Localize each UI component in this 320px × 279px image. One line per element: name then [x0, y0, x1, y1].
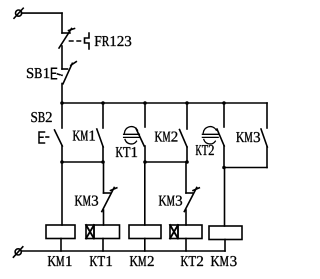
wire segment1 joining SB2 and KM1 bottoms: [62, 161, 103, 163]
node KM2/KM3NC junction: [185, 160, 189, 164]
node SB2/KM1 junction: [101, 160, 105, 164]
wire KM2 coil to bottom rail: [144, 239, 146, 252]
label coil KM2: [130, 256, 154, 266]
coil KM2: [129, 225, 161, 239]
contact KM2 (NO aux): [180, 103, 188, 162]
wire KM3 NC 1 to KT1 coil: [103, 210, 105, 225]
contact KM3 NC (interlock 2): [184, 188, 199, 212]
contact KM3 NC (interlock 1): [102, 188, 117, 212]
node KT2 branch top: [222, 101, 226, 105]
contact KT2 (on-delay timed NO): [202, 103, 224, 168]
node KM2 branch top: [185, 101, 189, 105]
node at bus left corner: [60, 101, 64, 105]
label coil KT1: [90, 256, 112, 266]
label SB2: [31, 112, 51, 122]
node KT2/KM3 junction: [222, 166, 226, 170]
wire KM2 node down to KM3 NC contact 2: [185, 162, 187, 193]
label coil KM3: [211, 256, 237, 266]
wire vertical drop to FR contact: [61, 13, 63, 33]
wire connector joining KT2 and KM3 bottoms: [224, 167, 267, 169]
wire SB1 to top bus: [61, 84, 63, 104]
wire segment2 joining KT1 and KM2 bottoms: [145, 161, 187, 163]
wire KT2 node down to KM3 coil: [224, 168, 226, 227]
label KM2 contact: [155, 132, 178, 142]
coil KM1: [46, 225, 75, 239]
label KT2 contact: [196, 145, 214, 155]
label coil KT2: [181, 256, 203, 266]
contact KM1 (self-hold NO aux): [97, 103, 103, 162]
wire KT1 coil to bottom rail: [102, 239, 104, 252]
node KT1/KM2 junction: [143, 160, 147, 164]
label KM3 contact right: [236, 132, 260, 142]
label coil KM1: [48, 256, 72, 266]
FR123 dashed link to thermal element: [70, 40, 84, 42]
label FR123: [95, 36, 132, 46]
start button SB2 NO contact: [39, 103, 62, 162]
wire top horizontal from terminal to drop: [22, 12, 63, 14]
FR123 thermal element symbol: [85, 33, 90, 49]
wire KM1 coil to bottom rail: [60, 239, 62, 252]
label KM1 contact: [73, 131, 95, 141]
node SB2 branch bottom: [60, 160, 64, 164]
label KT1 contact: [116, 147, 137, 157]
contact KT1 (on-delay timed NO): [124, 103, 145, 162]
label KM3 interlock 1: [75, 196, 98, 206]
node KM1 branch top: [101, 101, 105, 105]
wire KM1 node down to KM3 NC contact 1: [103, 162, 105, 193]
wire KM3 NC 2 to KT2 coil: [185, 210, 187, 225]
label KM3 interlock 2: [159, 196, 182, 206]
terminal L2 (bottom power terminal, circle with slash): [13, 247, 22, 257]
top bus (live rail after SB1): [62, 102, 267, 104]
coil KM3: [209, 226, 242, 240]
thermal relay FR123 NC contact: [59, 29, 75, 49]
wire KT2 coil to bottom rail: [185, 239, 187, 252]
wire KM3 coil to bottom rail: [224, 240, 226, 252]
wire FR to SB1: [61, 46, 63, 69]
coil KT2 (timer coil with X box): [170, 225, 202, 239]
node KT1 branch top: [143, 101, 147, 105]
coil KT1 (timer coil with X box): [86, 225, 120, 239]
bottom rail (neutral): [21, 250, 225, 252]
label SB1: [27, 68, 49, 78]
wire SB2 branch down to KM1 coil: [61, 162, 63, 225]
terminal L1 (top power terminal, circle with slash): [14, 8, 23, 18]
stop button SB1 NC contact: [52, 62, 77, 84]
wire KT1 node down to KM2 coil: [144, 162, 146, 225]
contact KM3 (self-hold NO aux, right): [261, 103, 267, 168]
